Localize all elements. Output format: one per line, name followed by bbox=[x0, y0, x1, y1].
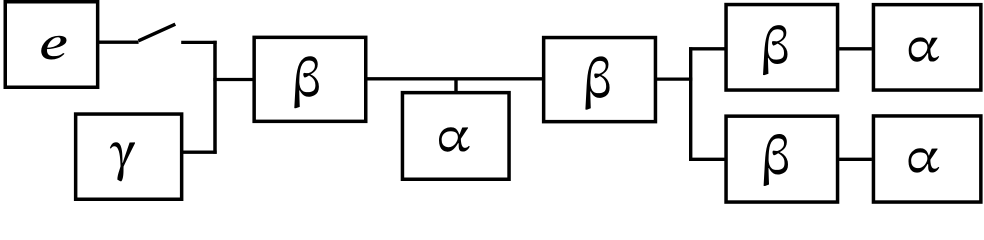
wire switch fixed contact bbox=[181, 41, 217, 44]
block alpha1 bbox=[402, 93, 509, 180]
wire drop to alpha1 bbox=[454, 79, 457, 93]
wire bus to beta1 bbox=[213, 78, 252, 81]
block beta4 bbox=[726, 116, 838, 202]
wire junction vertical splitter bbox=[689, 47, 692, 161]
block beta3 bbox=[726, 5, 838, 91]
block beta2 bbox=[544, 38, 656, 122]
wire top branch bbox=[689, 47, 725, 50]
block alpha2 bbox=[873, 5, 980, 90]
wire beta3 to alpha2 bbox=[839, 47, 872, 50]
switch S1 arm bbox=[139, 24, 176, 41]
wire beta2 to junction bbox=[657, 77, 692, 80]
wire input bus vertical bbox=[213, 41, 217, 154]
wire e output bbox=[99, 41, 139, 44]
wire beta4 to alpha3 bbox=[839, 158, 872, 161]
block gamma bbox=[76, 114, 182, 199]
wire gamma output bbox=[183, 151, 217, 154]
block alpha3 bbox=[873, 116, 980, 202]
wire bottom branch bbox=[689, 158, 725, 161]
block beta1 bbox=[254, 37, 366, 121]
block e (source box) bbox=[5, 2, 97, 88]
wire beta1 to beta2 bbox=[367, 77, 542, 80]
